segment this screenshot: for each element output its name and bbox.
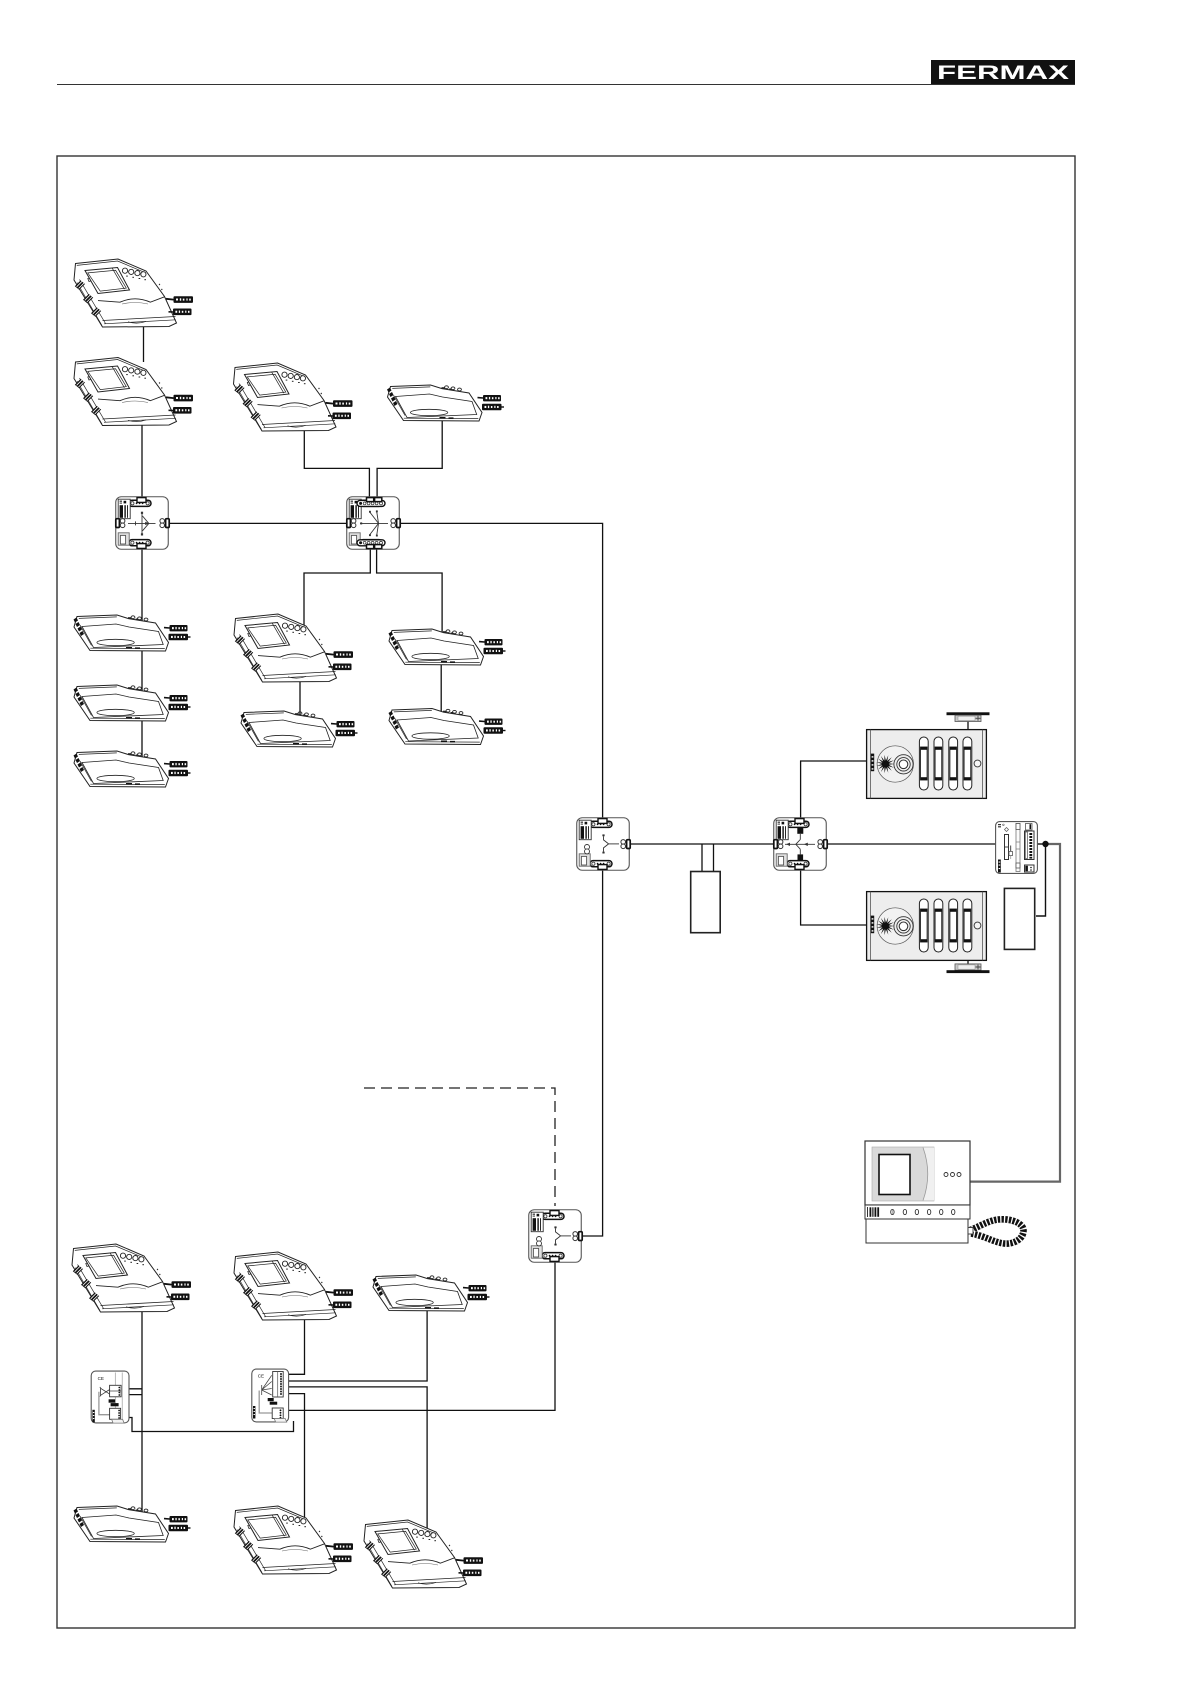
telephone T9 (373, 1275, 490, 1311)
wire AMP-dot (1034, 843, 1046, 845)
wire PSU1 stub right (713, 844, 715, 873)
wire B1 stub lower (120, 1394, 142, 1396)
amplifier U1 (996, 822, 1038, 874)
telephone T1 (74, 615, 191, 651)
wire M2-D1 (141, 416, 143, 500)
wire M7-B2 (282, 1310, 305, 1374)
panel profile bracket BR1 (947, 712, 990, 721)
wire D5-B2 (285, 1260, 555, 1410)
wire D4-panel2 (801, 867, 868, 925)
entry panel P2 (867, 892, 987, 961)
wire B2-M8 (282, 1394, 305, 1522)
wire D2-T5 (377, 546, 443, 636)
monitor M3 Citymax (234, 363, 353, 431)
distributor D2 (347, 497, 400, 550)
monitor M5 Citymax (234, 614, 353, 682)
telephone T4 (387, 385, 504, 421)
wire D3-D5 (578, 866, 603, 1236)
telephone T6 (241, 711, 358, 747)
guard video monitor VM1 (865, 1141, 1024, 1244)
wire D4-AMP (825, 843, 999, 845)
distributor D4 (774, 818, 827, 871)
monitor M7 Citymax (234, 1252, 353, 1320)
relay box B2 (252, 1369, 289, 1422)
entry panel P1 (867, 730, 987, 799)
telephone T7 (389, 709, 506, 745)
relay box B1 (91, 1371, 129, 1423)
wire M6-T8 bus (141, 1303, 143, 1515)
telephone T3 (74, 751, 191, 787)
wire dot-VMON (965, 844, 1060, 1182)
wire T9-B2 (282, 1302, 427, 1381)
distributor D3 (577, 818, 630, 871)
wire bracket1-panel1 (967, 721, 969, 732)
monitor M1 Citymax (74, 259, 193, 327)
wire D2-M5 (304, 546, 370, 628)
wire T5-T7 (440, 658, 442, 716)
monitor M8 Citymax (234, 1506, 353, 1574)
monitor M6 Citymax (72, 1244, 191, 1312)
power supply PSU1 (691, 872, 721, 933)
monitor M2 Citymax (74, 358, 193, 426)
telephone T8 (74, 1506, 191, 1542)
wire D1-T1 (141, 546, 143, 624)
wire M5-T6 (299, 674, 301, 720)
wire D4-panel1 (801, 761, 868, 821)
wire M1-M2 (143, 318, 145, 362)
wire B1 stub upper (120, 1388, 142, 1390)
wire T1-T2 (141, 642, 143, 694)
wire B2-M9 (282, 1387, 427, 1532)
distributor D1 (116, 497, 169, 550)
wire M3-D2 (304, 420, 369, 500)
wire D1-D2 (165, 522, 350, 524)
wire dot-PSU2 (1036, 844, 1046, 916)
telephone T5 (389, 629, 506, 665)
wire T4-D2 (377, 412, 442, 500)
monitor M9 Citymax (364, 1520, 483, 1588)
wire T2-T3 (141, 712, 143, 760)
wire D2-D3 (396, 523, 603, 822)
diagram border (57, 156, 1075, 1628)
wire D3-D4 (628, 843, 777, 845)
wire B1-B2 (119, 1418, 293, 1432)
node junction (1042, 841, 1048, 847)
wire (57, 84, 1075, 86)
panel profile bracket BR2 (947, 964, 990, 973)
wire panel2-bracket2 (967, 958, 969, 965)
wire dashed D5 (364, 1088, 555, 1206)
power supply PSU2 (1004, 888, 1034, 949)
telephone T2 (74, 685, 191, 721)
wire PSU1 stub left (701, 844, 703, 873)
FERMAX logo (931, 60, 1075, 84)
distributor D5 (529, 1210, 582, 1263)
svg-text:FERMAX: FERMAX (937, 62, 1069, 84)
